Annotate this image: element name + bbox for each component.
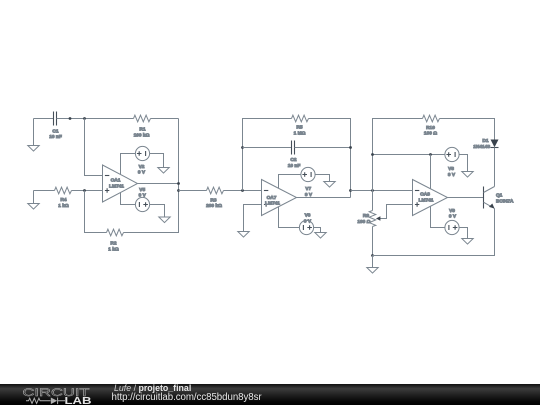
svg-text:9 V: 9 V: [448, 172, 456, 178]
svg-text:C2: C2: [290, 157, 296, 163]
wire ground to C1: [34, 118, 54, 120]
svg-text:100 kΩ: 100 kΩ: [134, 133, 150, 139]
node output dot: [177, 182, 180, 185]
svg-text:R5: R5: [296, 125, 302, 131]
ground for C1 input: [28, 119, 39, 152]
wire OA1 V+ power stub: [121, 154, 136, 175]
wire C2 right: [295, 147, 351, 149]
svg-text:OA8: OA8: [420, 192, 430, 198]
wire R2 to output vertical: [124, 119, 179, 233]
ground for V5: [159, 217, 170, 223]
wire V9 to ground: [459, 228, 468, 239]
wire ground to R4: [34, 190, 55, 192]
node dot bottom rail: [371, 254, 374, 257]
resistor R3 200 kOhm: [206, 187, 223, 209]
wire OA7 non-inverting input to ground: [244, 205, 262, 232]
wire OA8 V+ power stub: [430, 155, 432, 189]
svg-text:V6: V6: [305, 213, 311, 219]
svg-text:OA1: OA1: [111, 178, 121, 184]
svg-text:C1: C1: [52, 128, 58, 134]
svg-text:Q1: Q1: [496, 193, 503, 199]
resistor R10 100 Ohm: [423, 115, 440, 136]
wire OA8 non-inverting input to wiper: [380, 205, 413, 219]
svg-text:V5: V5: [139, 187, 145, 193]
node bus dot stage 1: [177, 189, 180, 192]
resistor R4 1 kOhm: [55, 187, 72, 209]
wire V8 supply row: [373, 154, 446, 156]
wire V8 to ground: [459, 155, 468, 172]
ground for OA7 non-inverting input: [238, 232, 249, 238]
svg-text:LM741: LM741: [419, 198, 434, 204]
wire R3 to OA7 inverting input: [224, 190, 262, 192]
wire OA7 output: [297, 197, 351, 199]
svg-text:10 nF: 10 nF: [49, 134, 62, 140]
svg-text:LM741: LM741: [265, 201, 280, 207]
source V7 9 V: [301, 167, 315, 198]
svg-text:R9: R9: [363, 213, 369, 219]
svg-text:LM741: LM741: [109, 184, 124, 190]
node bus dot stage 3: [371, 189, 374, 192]
resistor R2 1 kOhm: [107, 229, 124, 252]
wire R10 to D1: [440, 119, 495, 140]
node dot inverting net: [241, 189, 244, 192]
wire bus stage 2 to stage 3: [351, 190, 413, 192]
wire bottom rail to Q1 emitter: [373, 209, 495, 256]
wire OA7 V+ power stub: [279, 175, 302, 189]
wire OA1 V- power stub: [121, 193, 136, 205]
node dot OA8 power stub: [429, 153, 432, 156]
capacitor C1 10 nF: [49, 112, 62, 141]
ground for V7: [324, 182, 335, 188]
source V6 9 V: [299, 213, 313, 235]
wire R5 to right vertical: [309, 119, 351, 198]
ground for V6: [315, 233, 326, 239]
wire R4 to OA1 non-inverting input: [72, 190, 103, 192]
svg-text:9 V: 9 V: [304, 218, 312, 224]
wire V2 to ground: [149, 154, 163, 168]
node dot C2 right: [349, 146, 352, 149]
ground for V9: [462, 239, 473, 245]
svg-text:200 kΩ: 200 kΩ: [206, 203, 222, 209]
wire OA8 output to Q1 base: [448, 197, 484, 199]
ground for bottom rail: [367, 256, 378, 274]
potentiometer R9 100 Ohm: [357, 191, 380, 256]
wire OA1 output: [138, 183, 179, 185]
svg-text:R1: R1: [139, 127, 145, 133]
svg-text:R2: R2: [110, 241, 116, 247]
svg-text:9 V: 9 V: [449, 214, 457, 220]
ground for R4: [28, 191, 39, 210]
transistor Q1 BC547A: [484, 187, 515, 209]
source V2 9 V: [135, 146, 149, 175]
node T-junction to OA1 inverting input: [83, 117, 86, 120]
svg-text:10 nF: 10 nF: [288, 163, 301, 169]
wire down to R2: [85, 191, 107, 233]
svg-text:V7: V7: [305, 186, 311, 192]
svg-text:R4: R4: [60, 197, 66, 203]
svg-text:D1: D1: [482, 138, 488, 144]
node dot C2 left: [241, 146, 244, 149]
svg-text:V9: V9: [449, 208, 455, 214]
capacitor C2 10 nF: [288, 141, 301, 169]
resistor R5 1 MOhm: [292, 115, 309, 136]
svg-text:1 kΩ: 1 kΩ: [58, 203, 69, 209]
footer bar: [0, 384, 540, 405]
wire V6 to ground: [313, 228, 320, 233]
svg-text:100 Ω: 100 Ω: [424, 131, 437, 137]
source V5 9 V: [135, 187, 149, 212]
wire D1 to Q1 collector: [494, 148, 496, 187]
node junction R4 / R2: [83, 189, 86, 192]
ground for V2: [158, 168, 169, 174]
svg-text:1 kΩ: 1 kΩ: [108, 247, 119, 253]
svg-text:V2: V2: [139, 164, 145, 170]
svg-text:100 Ω: 100 Ω: [357, 219, 370, 225]
wire C1 to R1: [57, 118, 134, 120]
svg-text:9 V: 9 V: [139, 193, 147, 199]
CircuitLab logo: [14, 385, 106, 405]
svg-text:LAB: LAB: [65, 396, 92, 405]
ground for V8: [462, 172, 473, 178]
node dot V8 row left: [371, 153, 374, 156]
svg-text:R3: R3: [210, 197, 216, 203]
wire bus to R3: [179, 190, 207, 192]
wire OA8 V- power stub: [431, 207, 446, 228]
svg-text:OA7: OA7: [267, 195, 277, 201]
wire V5 to ground: [149, 205, 164, 218]
op-amp OA1 LM741: [103, 165, 138, 202]
op-amp OA7 LM741: [262, 180, 297, 216]
diode D1 1N4148: [473, 138, 498, 150]
svg-text:R10: R10: [426, 125, 435, 131]
node dot on input net: [69, 117, 72, 120]
node bus dot stage 2: [349, 189, 352, 192]
wire feedback left vertical to R5: [243, 119, 292, 191]
wire to C2 left: [243, 147, 292, 149]
svg-text:1N4148: 1N4148: [473, 144, 490, 150]
wire down to OA1 inverting input: [85, 119, 103, 176]
source V9 9 V: [445, 208, 459, 235]
svg-text:V8: V8: [448, 166, 454, 172]
wire OA7 V- power stub: [279, 207, 300, 228]
source V8 9 V: [445, 147, 459, 178]
svg-text:1 MΩ: 1 MΩ: [294, 130, 306, 136]
svg-text:9 V: 9 V: [138, 170, 146, 176]
svg-text:BC547A: BC547A: [496, 198, 514, 204]
wire V7 to ground: [315, 175, 330, 182]
wire R1 to output node: [151, 118, 179, 120]
op-amp OA8 LM741: [413, 180, 448, 216]
resistor R1 100 kOhm: [134, 115, 151, 138]
wire left vertical up to R10: [373, 119, 423, 191]
